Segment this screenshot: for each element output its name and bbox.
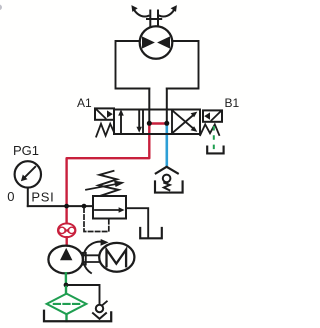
valve envelope 1 up arrow xyxy=(120,114,122,134)
relief valve spring xyxy=(99,171,119,196)
wire: red path through valve centre xyxy=(149,122,167,124)
relief valve pilot line (dashed) xyxy=(84,208,109,232)
hydraulic motor M1 rotation arrows xyxy=(131,5,177,26)
check valve CV1 ball xyxy=(163,175,171,183)
wire: gauge line to relief valve xyxy=(28,205,93,207)
svg-text:B1: B1 xyxy=(225,96,240,110)
valve port junction node (T-B) xyxy=(164,121,169,126)
rotation arrow (shaft) xyxy=(83,242,103,273)
spring (right end of valve) xyxy=(200,124,219,135)
wire: suction line pump to filter (green) xyxy=(65,273,67,285)
filter F1 (suction strainer) xyxy=(47,294,87,315)
wire: pressure line P (red) pump to valve xyxy=(67,125,150,223)
svg-text:PSI: PSI xyxy=(31,189,54,204)
wire: filter to tank (green) xyxy=(65,314,67,321)
wire: work line B (valve to motor) xyxy=(166,89,168,122)
wire: gauge stem xyxy=(27,188,29,207)
wire: relief valve outlet to tank xyxy=(126,208,148,237)
node: suction junction xyxy=(64,283,69,288)
check valve CV2 (tank breather) xyxy=(96,305,103,312)
relief valve adjustment arrow xyxy=(86,184,116,190)
svg-text:PG1: PG1 xyxy=(13,143,39,158)
valve envelope boundary 1 xyxy=(142,110,144,135)
screen-edge artifact top-left xyxy=(0,5,2,11)
svg-text:0: 0 xyxy=(7,189,14,204)
valve envelope 3 crossed arrows xyxy=(172,110,193,128)
relief valve RV1 body xyxy=(93,196,126,219)
wire: work line A (valve to motor) xyxy=(148,89,150,122)
solenoid S1 (left) xyxy=(95,108,114,119)
wire: motor housing loop xyxy=(116,41,199,89)
shaft pump to electric motor xyxy=(83,253,100,265)
wire: coupling to pump (red) xyxy=(65,237,67,245)
drain line (green dotted) xyxy=(213,127,215,149)
reservoir (valve drain tank) xyxy=(207,147,223,154)
pressure gauge PG1 xyxy=(15,161,41,187)
wire: junction to filter (green) xyxy=(65,287,67,294)
valve envelope boundary 2 xyxy=(171,110,173,135)
valve envelope 1 down arrow xyxy=(138,110,140,128)
spring (left end of valve) xyxy=(96,124,114,137)
check valve CV1 (back-pressure, under blue line) seat xyxy=(156,167,178,174)
hydraulic motor M1 (bidirectional) xyxy=(140,26,173,59)
electric motor M xyxy=(99,243,134,272)
directional valve V1 body xyxy=(114,110,200,135)
wire: return line T (blue) valve to check valve xyxy=(166,125,169,165)
check valve CV1 spring xyxy=(164,183,170,190)
solenoid S2 (right) xyxy=(203,110,222,121)
quick coupling (red) on pressure line xyxy=(58,223,76,237)
pump P1 xyxy=(48,246,83,274)
reservoir (relief valve tank) xyxy=(140,228,162,238)
valve port junction node (P-A) xyxy=(147,121,152,126)
node: junction pressure line / gauge line xyxy=(64,204,69,209)
wire: drain branch to bottom check valve xyxy=(66,285,100,305)
check valve CV1 frame xyxy=(155,181,183,192)
node: junction pilot line xyxy=(82,204,87,209)
reservoir (main tank) xyxy=(44,311,111,321)
svg-text:A1: A1 xyxy=(77,96,92,110)
